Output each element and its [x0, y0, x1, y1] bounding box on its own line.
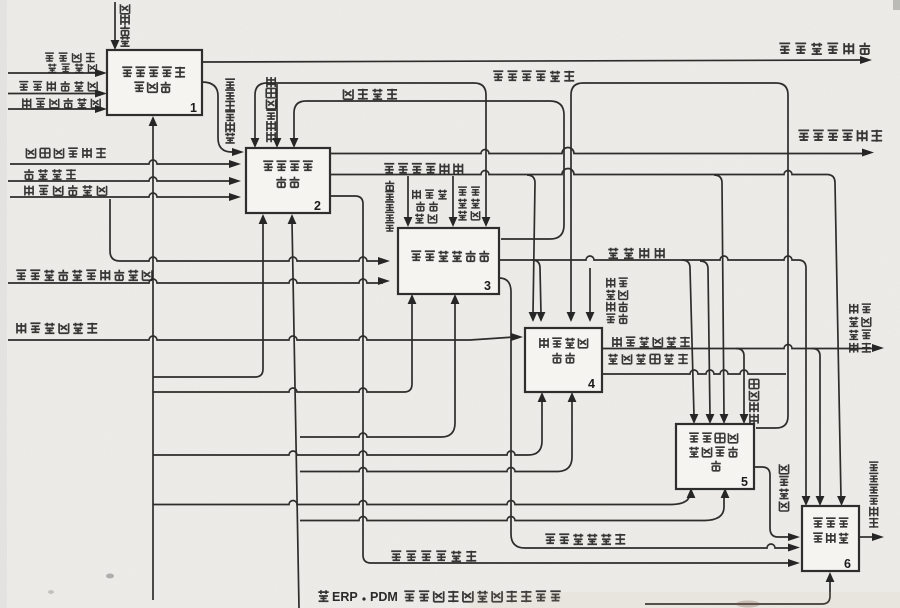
wire: shengchan huanjing shishi bianhua [8, 279, 383, 283]
svg-text:1: 1 [190, 101, 197, 115]
wire: jiankong zhiling branch [736, 349, 744, 417]
label shengchan diaodu xinxi [545, 534, 625, 545]
label shengchan nengli fenxi [225, 79, 235, 143]
wire: gongyi guicheng branch into box3 left [110, 199, 383, 261]
label box5 text row3 [711, 461, 721, 471]
wire: zhu shengchan jihua branch [407, 176, 409, 219]
label shengchan tongji baobiao [869, 462, 878, 528]
wire: ziyuan youhua suanfa stub [589, 268, 591, 314]
label shengchan jihua xinxi [391, 551, 476, 562]
wire: nengli fenxi curve [202, 82, 235, 152]
label yu ERP prefix [318, 590, 328, 601]
label box5 text row2 [689, 447, 738, 457]
process box2 shengchan jihua guanli [246, 148, 330, 213]
wire: shengchan dingdan input [8, 72, 98, 74]
label diaodu zhiling [608, 248, 665, 259]
wire: wuliao xinxi input [8, 177, 233, 181]
label jiankong zhiling [749, 379, 759, 423]
wire: branch up into box4 bottom a [153, 400, 542, 455]
label zhuangpei x1 [606, 278, 628, 288]
wire: diaodu branch box5 top b [700, 261, 710, 416]
wire: branch to box6 top [812, 349, 820, 499]
wire: branch up into box5 bottom b [300, 497, 724, 521]
label xuqiu baobiao c1 [849, 304, 871, 314]
label zhu shengchan jihua [385, 181, 394, 231]
label yunxing kongzhi zhiling [266, 77, 276, 142]
label box4 text row1 [539, 338, 587, 348]
label youhua x3 [606, 302, 628, 312]
svg-text:5: 5 [741, 475, 748, 489]
process box1 shengchan jihua qianzhi chuli [107, 50, 202, 115]
label zhuangpei ziyuan xinxi out [612, 337, 690, 348]
label zhuangpei gongyi guicheng [24, 185, 106, 195]
label box5 text row1 [689, 433, 737, 443]
wire: shengchan tongji baobiao [859, 536, 875, 538]
label zhuangpei ziyuan xinxi [16, 323, 97, 334]
label shengchan jihua baobiao [798, 130, 882, 142]
wire: shengchan jihua zhiling [330, 169, 841, 499]
svg-text:PDM: PDM [370, 590, 398, 604]
label box3 text [411, 251, 489, 262]
label celue [415, 214, 437, 223]
wire: shengchan diaodu xinxi [499, 278, 791, 548]
label zhiliang shuju [779, 464, 789, 511]
process box3 shengchan diaodu guanli [398, 228, 499, 294]
wire: gongyi guicheng input [10, 193, 233, 197]
svg-text:4: 4 [588, 377, 595, 391]
wire: ziyuan chongzu xinxi [602, 370, 786, 374]
label dongtai tiaozheng [344, 89, 398, 100]
label xuqiu baobiao c4 [849, 343, 871, 353]
label box6 text row1 [813, 518, 848, 527]
process box4 zhuangpei ziyuan guanli [525, 328, 602, 392]
label shengchan dingdan [45, 53, 95, 63]
wire: shengchan xitong zhuangtai (box5->box4) [571, 83, 788, 428]
wire: zhiliang shuju [754, 467, 791, 537]
label box1 text row2 [134, 82, 170, 93]
wire: right collector from box2 bottom [292, 221, 299, 608]
label wuliao xinxi [24, 169, 76, 180]
wire: zhiling branch to box5 top [714, 175, 724, 416]
label zhuangpeixian [412, 190, 447, 199]
scan smudges [470, 592, 900, 608]
wire: branch up into box3 bottom b [300, 302, 455, 437]
wire: ERP bottom line into box6 bottom [645, 581, 830, 604]
label pingheng [416, 202, 438, 211]
wire: qiyejuece arrow into box1 top [114, 2, 116, 42]
wire: diaodu branch box4 top [532, 260, 541, 314]
label guize r3 [458, 211, 480, 220]
process box6 shengchan tongji fenxi [802, 506, 859, 571]
wire: gongshi ding_e input [10, 160, 233, 164]
wire: yunxing kongzhi arrow [276, 84, 278, 139]
wire: branch up into box3 bottom a [153, 302, 412, 392]
label xuqiu shuju [48, 64, 96, 73]
label shengchan jihua zhiling [384, 164, 463, 175]
wire: U1 box2top-box3top [255, 83, 486, 219]
label xitong jiekou ji shuju caiji xitong [404, 591, 560, 602]
label diaodu r2 [458, 199, 480, 208]
wire: diaodu zhiling [499, 256, 806, 498]
wire: zhuangpei ziyuan xinxi input [8, 336, 514, 340]
label xuqiu baobiao c3 [849, 330, 871, 340]
label shengchan xuqiu baogao [779, 43, 870, 55]
wire: left collector vertical x153 [152, 125, 154, 600]
label chanpin kucun shuju [19, 81, 97, 91]
wire: diaodu branch box5 top a [682, 260, 694, 416]
svg-text:3: 3 [484, 279, 491, 293]
label shengchan huanjing shishi bianhua shuju [16, 270, 152, 281]
label gongjian gongshi ding_e [26, 148, 105, 159]
label zhuangpei gongyi shuju [22, 98, 100, 108]
label xuqiu baobiao c2 [849, 317, 871, 327]
label box6 text row2 [813, 533, 848, 543]
svg-text:ERP: ERP [332, 590, 358, 604]
wire: zhuangpei ziyuan xuqiu baobiao [602, 345, 876, 349]
label box2 text row1 [263, 161, 313, 170]
label ziyuan x2 [606, 290, 627, 300]
svg-text:2: 2 [314, 199, 321, 213]
label box4 text row2 [552, 353, 575, 363]
wire: shengchan jihua xinxi [330, 196, 791, 563]
wire: shengchan xuqiu baogao [202, 60, 862, 62]
label suanfa x4 [606, 314, 628, 324]
wire: dongtai tiaozheng [294, 101, 564, 239]
wire: zhiling branch to box4 top [527, 175, 535, 314]
wire: chanpin kucun input [8, 93, 98, 95]
label ziyuan chongzu xinxi [608, 354, 688, 365]
wire: zhuangpeixian pingheng branch [452, 176, 454, 219]
wire: branch up into box4 bottom b [300, 400, 572, 472]
process box5 shengchan jiankong yu zhiliang [676, 424, 754, 489]
label box1 text row1 [122, 67, 185, 78]
label shengchan xitong zhuangtai [493, 71, 574, 82]
wire: branch up into box2 bottom left [153, 222, 263, 377]
wire: shengchan jihua baobiao [330, 148, 863, 154]
label box2 text row2 [276, 177, 299, 188]
wire: branch up into box5 bottom a [153, 493, 690, 505]
label shengchan r1 [458, 187, 480, 195]
svg-text:6: 6 [844, 557, 851, 571]
wire: zhuangpei gongyi shuju input [8, 108, 98, 110]
label qiye juece [120, 4, 130, 46]
